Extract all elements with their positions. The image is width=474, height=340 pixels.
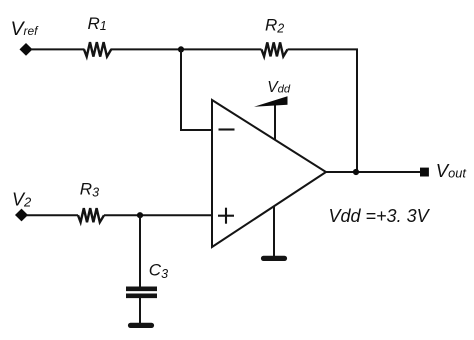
node junction inverting feedback (178, 46, 184, 52)
wire junction down to inverting input (181, 49, 212, 130)
wire R2 to output vertical (288, 49, 358, 172)
node Vref terminal (20, 43, 33, 56)
wire Vref to R1 (31, 48, 85, 50)
resistor R2 (262, 42, 288, 56)
op-amp U1 (212, 100, 326, 247)
capacitor C3 (126, 289, 157, 296)
wire output (326, 171, 420, 173)
ground (below C3) (131, 323, 152, 328)
wire op-amp ground post (273, 207, 275, 257)
wire V2 to R3 (27, 214, 79, 216)
resistor R1 (84, 42, 111, 56)
op-amp non-inverting input plus sign (218, 208, 234, 224)
power flag Vdd (254, 96, 288, 107)
node junction C3 (137, 212, 143, 218)
wire Vdd post (274, 101, 276, 141)
wire R1 to R2 (111, 48, 262, 50)
resistor R3 (78, 208, 104, 222)
wire junction down to C3 (139, 215, 141, 286)
node junction output (353, 169, 359, 175)
svg-text:Vdd =+3. 3V: Vdd =+3. 3V (329, 206, 431, 226)
wire R3 to non-inverting input (104, 214, 212, 216)
node V2 terminal (15, 209, 28, 222)
node Vout terminal (420, 168, 429, 177)
ground (op-amp) (264, 256, 285, 261)
op-amp inverting input minus sign (219, 128, 235, 130)
wire C3 to ground (139, 298, 141, 324)
